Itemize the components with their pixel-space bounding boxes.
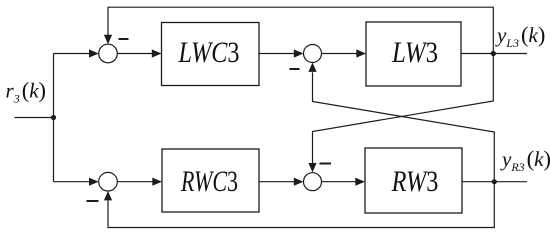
arrowhead into S2 bottom — [308, 63, 316, 72]
wire RWC3 to S4 — [259, 181, 294, 183]
wire S3 to RWC3 — [117, 181, 153, 183]
svg-text:yR3(k): yR3(k) — [500, 146, 550, 174]
arrowhead into S4 top — [308, 163, 316, 172]
svg-text:RW3: RW3 — [391, 165, 439, 198]
wire RW3 output to yR3 — [462, 181, 527, 183]
minus sign at S3 — [87, 200, 99, 202]
node junction r3 branch — [51, 115, 56, 120]
minus sign at S4 — [320, 163, 332, 165]
wire LW3 output to yL3 — [461, 53, 527, 55]
arrowhead into S3 left — [89, 178, 99, 186]
svg-text:r3(k): r3(k) — [6, 77, 47, 105]
wire S1 to LWC3 — [117, 53, 152, 55]
arrowhead into S1 top — [104, 35, 112, 44]
block RW3 — [365, 148, 462, 213]
summing junction S4 — [304, 173, 322, 191]
summing junction S2 — [304, 45, 322, 63]
block LWC3 — [162, 23, 260, 86]
arrowhead into RWC3 — [152, 178, 162, 186]
arrowhead into LW3 — [356, 49, 366, 57]
wire input r3 horizontal — [15, 117, 54, 119]
node junction yL3 — [491, 51, 496, 56]
svg-text:yL3(k): yL3(k) — [495, 22, 545, 50]
wire top feedback yL3 to S1 — [108, 7, 493, 53]
arrowhead into S2 left — [294, 49, 304, 57]
arrowhead into S4 left — [294, 178, 304, 186]
arrowhead into S3 bottom — [104, 191, 112, 200]
block RWC3 — [162, 149, 259, 212]
arrowhead into S1 left — [89, 49, 99, 57]
summing junction S3 — [99, 172, 118, 191]
arrowhead into RW3 — [355, 178, 365, 186]
minus sign at S2 — [290, 68, 300, 70]
node junction yR3 — [492, 179, 497, 184]
wire to summing junction S1 — [54, 53, 90, 55]
wire S2 to LW3 — [322, 53, 357, 55]
arrowhead into LWC3 — [152, 49, 162, 57]
wire S4 to RW3 — [322, 181, 356, 183]
wire cross feedback yR3 to S2 — [313, 72, 495, 181]
svg-text:LWC3: LWC3 — [178, 36, 240, 69]
svg-text:RWC3: RWC3 — [180, 165, 238, 198]
wire cross feedback yL3 to S4 — [313, 54, 494, 164]
summing junction S1 — [99, 44, 118, 63]
wire to summing junction S3 — [54, 181, 90, 183]
minus sign at S1 — [119, 38, 129, 40]
block LW3 — [366, 22, 461, 86]
wire bottom feedback yR3 to S3 — [108, 182, 494, 228]
wire LWC3 to S2 — [259, 53, 294, 55]
svg-text:LW3: LW3 — [391, 36, 438, 69]
wire input branch vertical — [53, 54, 55, 182]
